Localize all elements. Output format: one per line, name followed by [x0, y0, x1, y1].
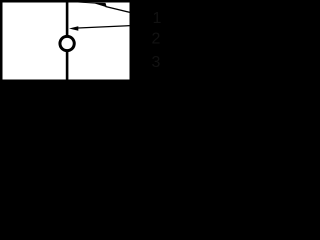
svg-text:2: 2 — [152, 31, 161, 48]
svg-text:3: 3 — [152, 54, 161, 71]
svg-text:1: 1 — [153, 10, 162, 27]
